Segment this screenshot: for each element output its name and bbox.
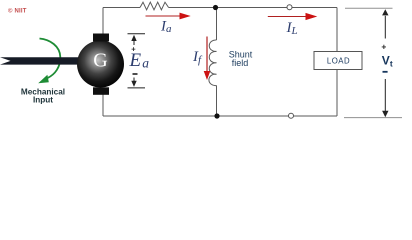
- svg-text:+: +: [381, 41, 386, 51]
- svg-text:© NIIT: © NIIT: [8, 8, 27, 15]
- svg-text:Input: Input: [33, 96, 53, 105]
- svg-text:LOAD: LOAD: [327, 57, 350, 66]
- svg-text:field: field: [232, 58, 249, 68]
- svg-text:G: G: [93, 50, 107, 72]
